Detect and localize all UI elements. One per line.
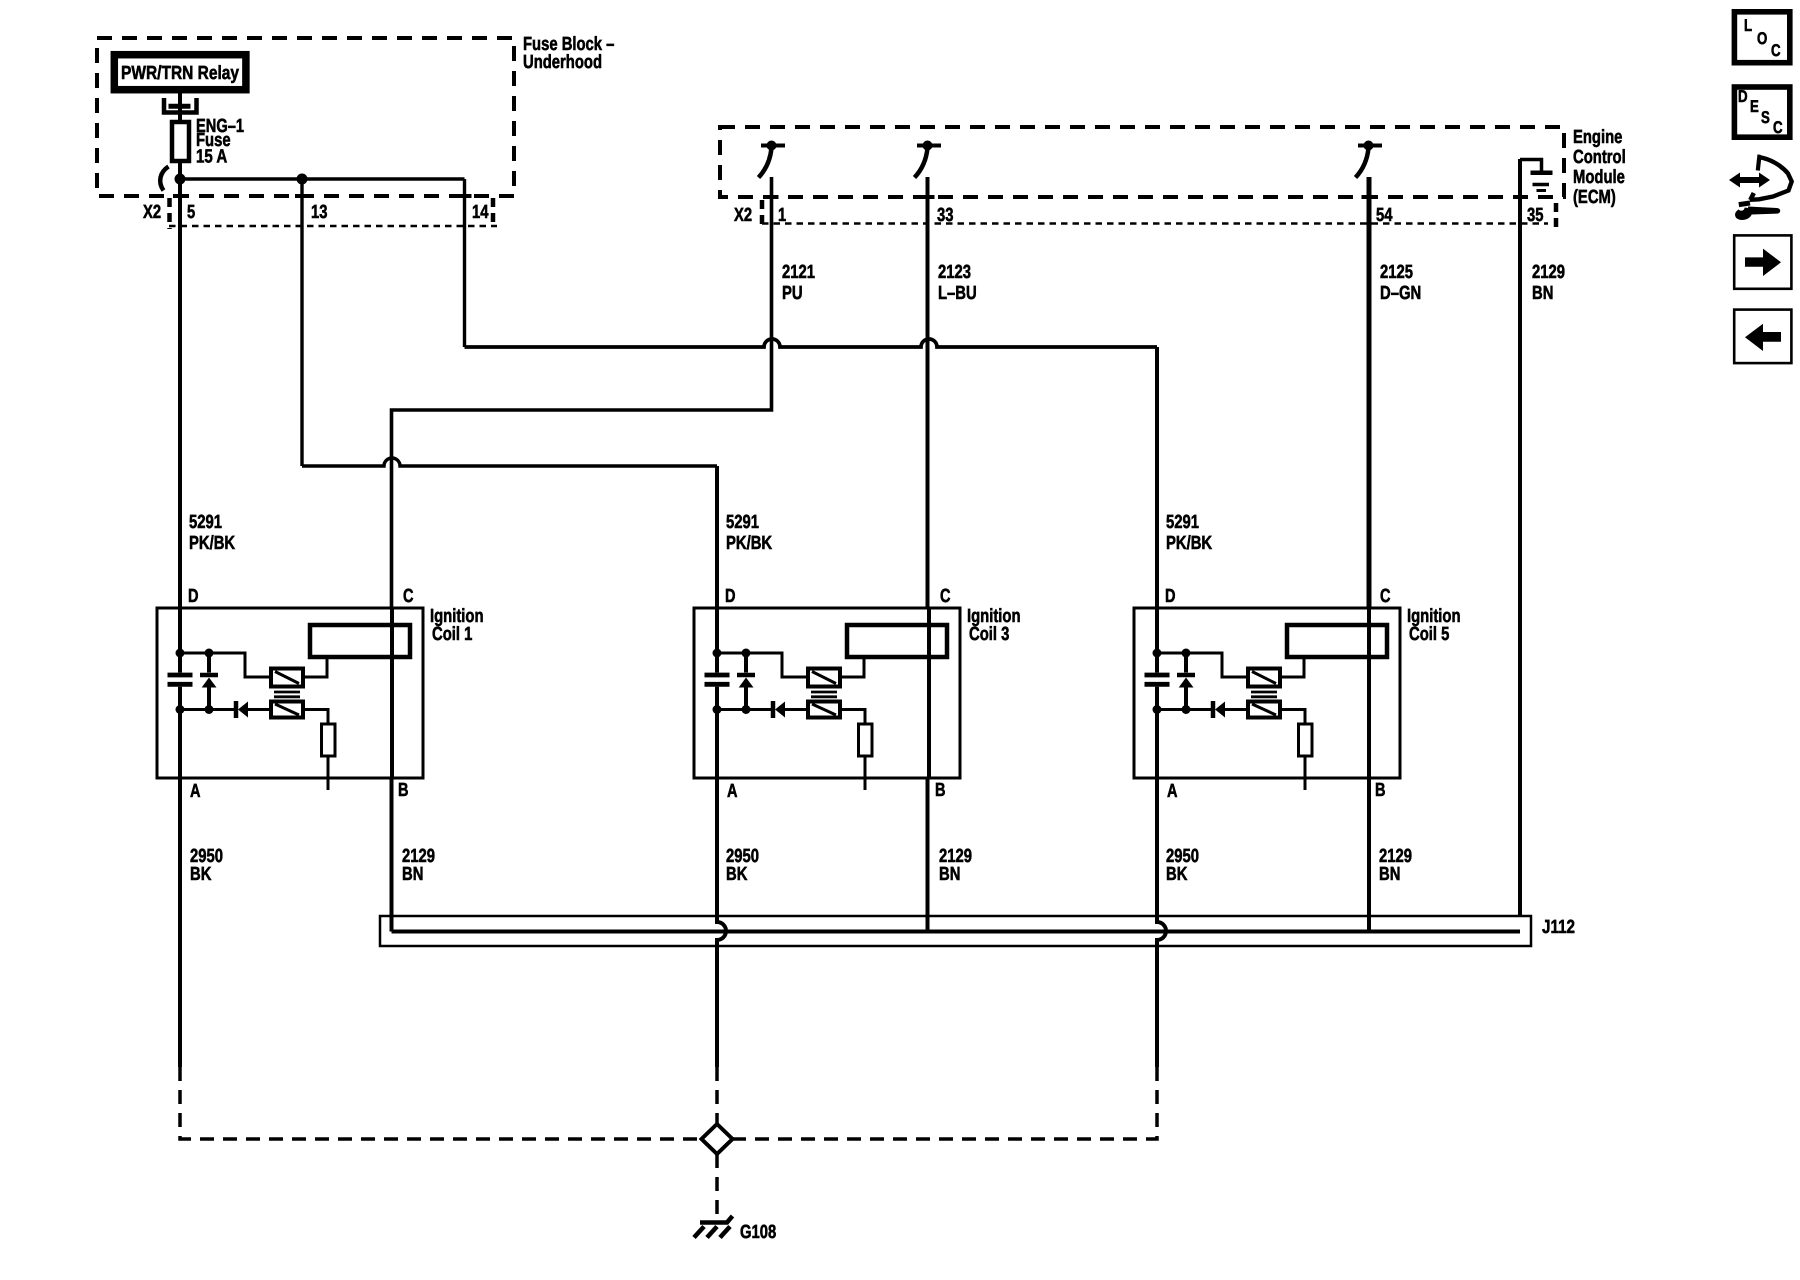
zener diode coil 5: [1177, 653, 1195, 710]
svg-text:L: L: [1744, 16, 1752, 35]
wire coil 1 primary to block: [303, 657, 327, 677]
wire coil 5 upper rail: [1157, 653, 1248, 677]
ignition coil 1 pin D wire: [178, 608, 182, 778]
wire pin13 vertical: [300, 179, 303, 466]
wire J112 internal bus: [392, 930, 1521, 934]
relay switch contact arc: [160, 167, 168, 191]
wire pin14 horizontal to coil5 D with hops: [465, 339, 1158, 347]
svg-text:33: 33: [937, 205, 954, 226]
wire coil5 D drop circuit 5291: [1155, 347, 1159, 608]
svg-text:2129: 2129: [1532, 262, 1565, 283]
label Ignition Coil 1: [430, 606, 484, 645]
svg-text:D: D: [1165, 586, 1176, 607]
pin labels coil 3 D C A B: [725, 586, 951, 802]
transformer coil 3 secondary winding: [808, 702, 840, 718]
junction block J112: [380, 916, 1531, 946]
svg-text:2121: 2121: [782, 262, 815, 283]
ECM internal ground pin 35: [1520, 160, 1553, 191]
ignition coil 5 pin D wire: [1155, 608, 1159, 778]
connector X2 ECM left tick: [760, 200, 765, 228]
dashed wire splice to ground: [715, 1154, 719, 1218]
connector X2 fuse block dashed line: [169, 225, 497, 228]
wire bus to pins 13 and 14: [180, 177, 465, 180]
svg-text:Coil 1: Coil 1: [432, 624, 473, 645]
ECM driver output pin 54: [1356, 141, 1383, 178]
svg-text:14: 14: [472, 202, 489, 223]
ignition coil 5 box: [1134, 608, 1400, 778]
icon wiring repair tool: [1729, 157, 1792, 222]
svg-text:E: E: [1750, 97, 1759, 116]
wire coil1 B 2129 BN to J112: [390, 778, 394, 932]
svg-text:35: 35: [1527, 205, 1544, 226]
svg-text:1: 1: [778, 205, 787, 226]
transformer coil 1 secondary winding: [271, 702, 303, 718]
wire pin5 to coil1 D circuit 5291: [178, 179, 182, 608]
svg-text:15 A: 15 A: [196, 147, 228, 168]
node coil 1 dots: [176, 649, 214, 715]
icon next arrow button: [1734, 235, 1791, 288]
dashed ground wire coil1: [180, 1067, 702, 1139]
wire pin14 vertical: [463, 179, 466, 347]
wire coil3 D drop circuit 5291: [715, 466, 719, 608]
svg-text:5291: 5291: [1166, 512, 1199, 533]
label Fuse Block - Underhood: [523, 34, 614, 73]
pin labels X2 5 13 14: [143, 202, 489, 223]
icon back arrow button: [1734, 310, 1791, 364]
pin labels coil 5 D C A B: [1165, 586, 1391, 802]
svg-text:Underhood: Underhood: [523, 52, 602, 73]
resistor coil 5: [1299, 724, 1313, 756]
svg-text:PU: PU: [782, 283, 803, 304]
svg-text:Coil 5: Coil 5: [1409, 624, 1450, 645]
svg-text:X2: X2: [734, 205, 752, 226]
wire coil 3 lower rail: [717, 708, 773, 711]
label 2121 PU: [782, 262, 815, 304]
svg-text:C: C: [1380, 586, 1391, 607]
capacitor coil 3: [705, 675, 730, 684]
svg-text:J112: J112: [1542, 917, 1575, 938]
svg-text:2123: 2123: [938, 262, 971, 283]
svg-text:D: D: [725, 586, 736, 607]
connector X2 ECM dashed line: [762, 222, 1548, 225]
svg-text:Engine: Engine: [1573, 127, 1622, 148]
wire coil 3 primary to block: [840, 657, 864, 677]
node fuse output junction: [175, 174, 186, 185]
wire coil3 B 2129 BN to J112: [926, 778, 930, 932]
label 5291 PK/BK coil5: [1166, 512, 1212, 554]
ignition coil 5 secondary block: [1287, 625, 1387, 657]
wire coil 3 upper rail: [717, 653, 808, 677]
wire coil 5 secondary to resistor: [1280, 710, 1305, 725]
label 2950 BK coil3: [726, 846, 759, 885]
wire fuse to node: [178, 161, 182, 181]
diode coil 5: [1213, 701, 1248, 718]
icon DESC button: [1734, 87, 1789, 137]
svg-text:Module: Module: [1573, 167, 1625, 188]
svg-text:C: C: [1773, 118, 1783, 137]
label Ignition Coil 5: [1407, 606, 1461, 645]
ignition coil 1 box: [157, 608, 423, 778]
wire pin13 horizontal to coil3 D with hop: [302, 458, 717, 466]
wire coil 3 secondary to resistor: [840, 710, 865, 725]
wire coil 5 primary to block: [1280, 657, 1304, 677]
wire coil 5 lower rail: [1157, 708, 1213, 711]
dashed ground wire coil5: [733, 1067, 1158, 1139]
label 2123 L-BU: [938, 262, 977, 304]
relay K PWR/TRN Relay: [114, 55, 246, 90]
label Ignition Coil 3: [967, 606, 1021, 645]
svg-text:S: S: [1761, 108, 1770, 127]
wire 2125 D-GN pin54 to coil5 C: [1367, 177, 1372, 608]
connector X2 fuse block left tick: [167, 198, 172, 229]
svg-text:D: D: [1738, 87, 1748, 106]
wire coil5 B 2129 BN to J112: [1367, 778, 1371, 932]
icon LOC button: [1734, 12, 1789, 63]
label 2129 BN coil5: [1379, 846, 1412, 885]
connector X2 ECM right tick: [1554, 203, 1559, 232]
svg-text:BK: BK: [726, 864, 748, 885]
svg-text:13: 13: [311, 202, 328, 223]
resistor coil 1: [322, 724, 336, 756]
svg-text:PWR/TRN Relay: PWR/TRN Relay: [121, 63, 239, 84]
transformer coil 5 secondary winding: [1248, 702, 1280, 718]
label 2950 BK coil1: [190, 846, 223, 885]
diode coil 3: [773, 701, 808, 718]
svg-text:PK/BK: PK/BK: [726, 533, 772, 554]
transformer coil 3 core: [811, 692, 837, 697]
transformer coil 5 primary winding: [1248, 669, 1280, 687]
capacitor coil 5: [1145, 675, 1170, 684]
pin labels X2 1 33 54 35: [734, 205, 1544, 226]
fuse block underhood dashed box: [97, 38, 514, 196]
wire coil 1 upper rail: [180, 653, 271, 677]
zener diode coil 1: [200, 653, 218, 710]
resistor coil 3: [859, 724, 873, 756]
wire coil 1 secondary to resistor: [303, 710, 328, 725]
label 2950 BK coil5: [1166, 846, 1199, 885]
svg-text:BK: BK: [1166, 864, 1188, 885]
label 5291 PK/BK coil1: [189, 512, 235, 554]
node coil 5 dots: [1153, 649, 1191, 715]
ignition coil 3 pin C wire: [927, 608, 931, 778]
ignition coil 1 secondary block: [310, 625, 410, 657]
label 5291 PK/BK coil3: [726, 512, 772, 554]
wire 2123 L-BU pin33 to coil3 C: [926, 177, 930, 608]
svg-text:X2: X2: [143, 202, 161, 223]
ground G108 symbol: [694, 1216, 733, 1238]
splice diamond: [702, 1124, 733, 1154]
pin labels coil 1 D C A B: [188, 586, 414, 802]
svg-text:54: 54: [1376, 205, 1393, 226]
capacitor coil 1: [168, 675, 193, 684]
svg-text:A: A: [190, 781, 201, 802]
ignition coil 3 pin D wire: [715, 608, 719, 778]
svg-text:B: B: [1375, 780, 1386, 801]
label 2129 BN coil1: [402, 846, 435, 885]
diode coil 1: [236, 701, 271, 718]
label 2129 BN coil3: [939, 846, 972, 885]
engine control module dashed box: [720, 127, 1564, 197]
svg-text:A: A: [1167, 781, 1178, 802]
wire 2950 BK coil3 A with hop through J112: [717, 778, 726, 1067]
svg-text:A: A: [727, 781, 738, 802]
svg-text:Coil 3: Coil 3: [969, 624, 1009, 645]
svg-text:BN: BN: [939, 864, 960, 885]
ignition coil 3 box: [694, 608, 960, 778]
svg-text:5291: 5291: [726, 512, 759, 533]
wire coil 1 resistor stub: [327, 756, 330, 790]
label 2129 BN: [1532, 262, 1565, 304]
wire relay to fuse: [178, 93, 182, 122]
ignition coil 3 secondary block: [847, 625, 947, 657]
wire 2950 BK coil5 A with hop through J112: [1157, 778, 1166, 1067]
svg-text:B: B: [935, 780, 946, 801]
svg-text:PK/BK: PK/BK: [189, 533, 235, 554]
wire coil 1 lower rail: [180, 708, 236, 711]
ECM driver output pin 33: [915, 141, 942, 178]
dashed ground wire coil3: [715, 1067, 719, 1124]
svg-text:D: D: [188, 586, 199, 607]
ignition coil 1 pin C wire: [390, 608, 394, 778]
transformer coil 1 core: [274, 692, 300, 697]
fuse ENG-1 15A body: [172, 122, 189, 161]
svg-text:PK/BK: PK/BK: [1166, 533, 1212, 554]
label Engine Control Module (ECM): [1573, 127, 1626, 208]
label 2125 D-GN: [1380, 262, 1421, 304]
wire 2129 BN pin35 to junction J112: [1518, 159, 1522, 932]
transformer coil 5 core: [1251, 692, 1277, 697]
connector pin ticks fuse block edge: [173, 194, 472, 198]
svg-text:2125: 2125: [1380, 262, 1413, 283]
ignition coil 5 pin C wire: [1367, 608, 1371, 778]
wire coil 5 resistor stub: [1304, 756, 1307, 790]
transformer coil 1 primary winding: [271, 669, 303, 687]
connector pin ticks ECM edge: [765, 195, 1528, 199]
wire 2121 PU pin1 to coil1 C: [392, 177, 772, 608]
svg-text:5: 5: [187, 202, 196, 223]
svg-text:Control: Control: [1573, 147, 1626, 168]
transformer coil 3 primary winding: [808, 669, 840, 687]
connector X2 fuse block right tick: [491, 198, 496, 227]
svg-text:5291: 5291: [189, 512, 222, 533]
svg-text:C: C: [1771, 41, 1781, 60]
ECM driver output pin 1: [759, 141, 786, 178]
svg-text:O: O: [1757, 29, 1767, 48]
svg-text:BN: BN: [1379, 864, 1400, 885]
wire 2950 BK coil1 A to splice: [178, 778, 182, 1067]
zener diode coil 3: [737, 653, 755, 710]
svg-text:BN: BN: [402, 864, 423, 885]
node coil 3 dots: [713, 649, 751, 715]
svg-text:(ECM): (ECM): [1573, 187, 1616, 208]
svg-text:C: C: [403, 586, 414, 607]
svg-text:C: C: [940, 586, 951, 607]
svg-text:L–BU: L–BU: [938, 283, 977, 304]
svg-text:BN: BN: [1532, 283, 1553, 304]
node pin 13 junction: [297, 174, 308, 185]
wire coil 3 resistor stub: [864, 756, 867, 790]
fuse clip terminal: [164, 98, 197, 113]
svg-text:BK: BK: [190, 864, 212, 885]
svg-text:G108: G108: [740, 1222, 776, 1243]
svg-text:B: B: [398, 780, 409, 801]
svg-text:D–GN: D–GN: [1380, 283, 1421, 304]
label ENG-1 Fuse 15 A: [196, 116, 244, 168]
